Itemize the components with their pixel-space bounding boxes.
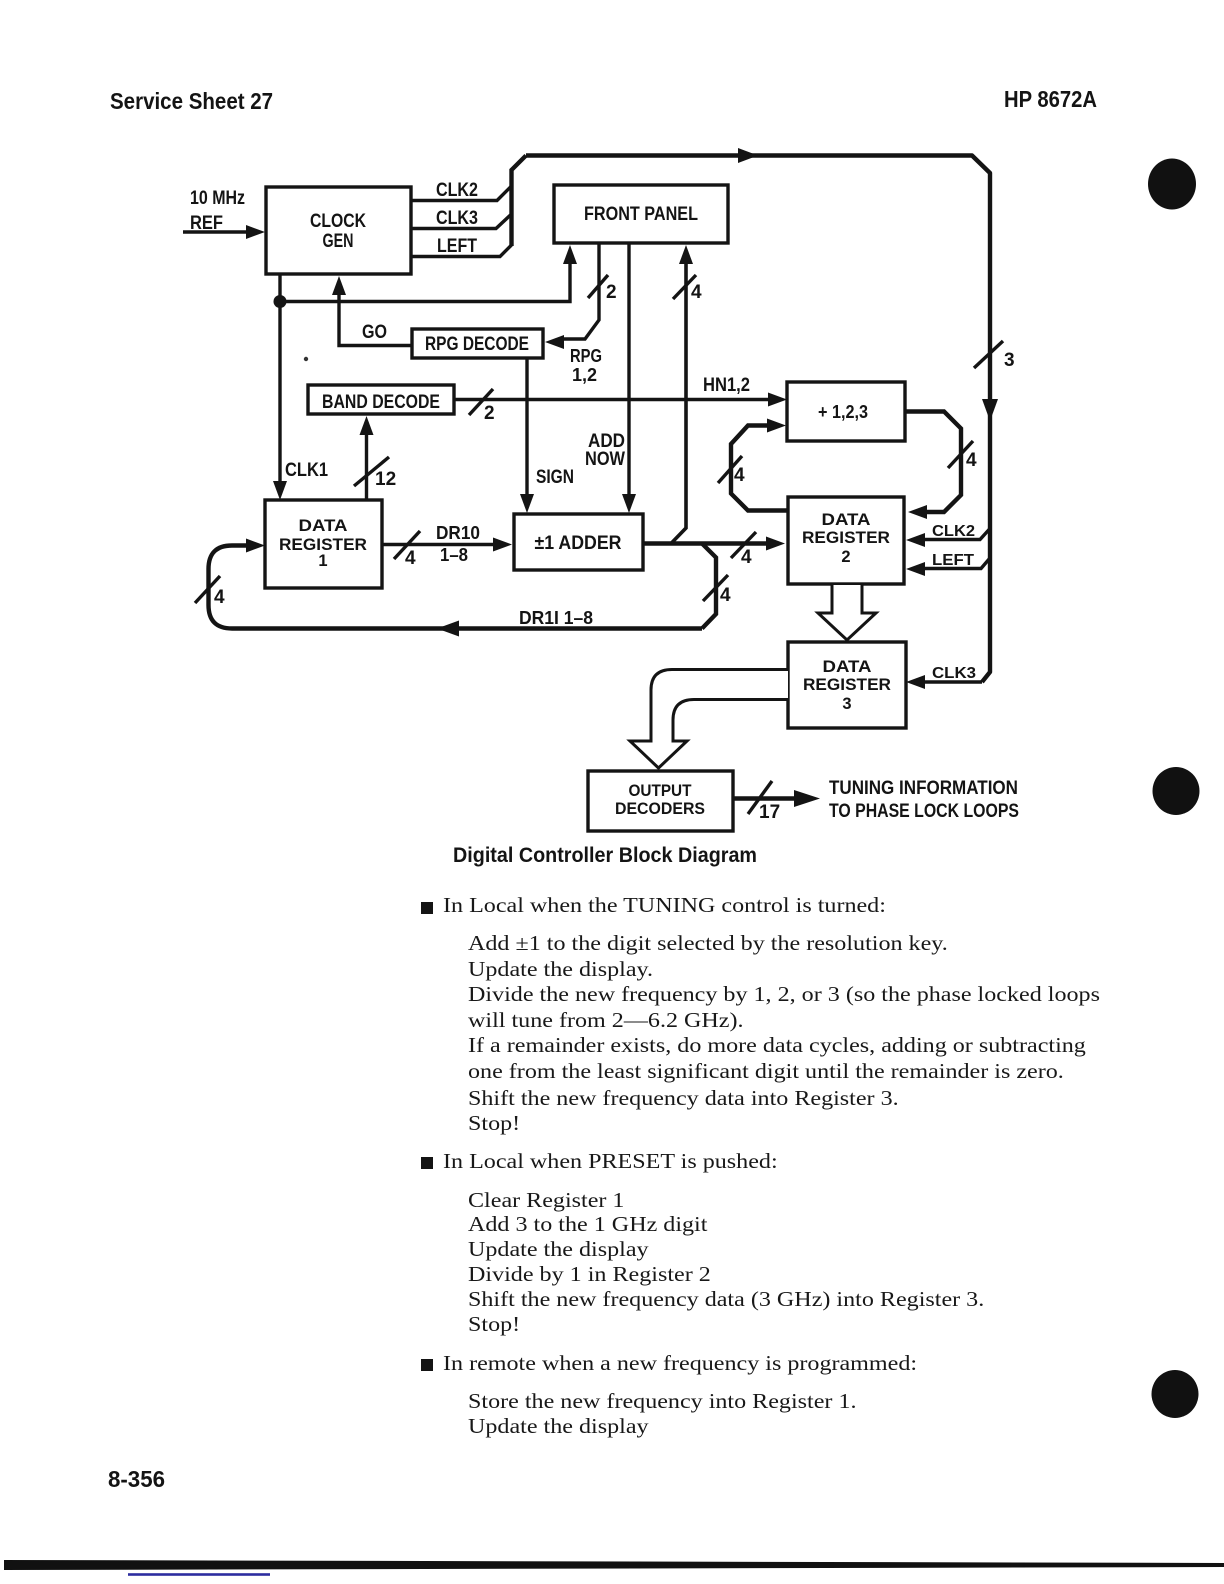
svg-text:GO: GO xyxy=(362,322,387,343)
svg-text:RPG DECODE: RPG DECODE xyxy=(425,334,529,355)
slash 12 on band decode input xyxy=(354,457,396,490)
registration dot 3 xyxy=(1152,1370,1199,1418)
bullet 2 xyxy=(421,1157,433,1169)
slash 4 on return loop xyxy=(195,576,225,608)
wire CLK1 junction down to data register 1 xyxy=(273,302,287,501)
svg-text:2: 2 xyxy=(841,548,850,566)
svg-text:DECODERS: DECODERS xyxy=(615,800,705,818)
hollow elbow arrow: data register 3 to output decoders xyxy=(630,670,788,769)
svg-text:1–8: 1–8 xyxy=(440,545,468,565)
wire: junction to front panel with up arrow xyxy=(280,245,577,302)
label ADD NOW xyxy=(585,431,625,470)
block OUTPUT DECODERS xyxy=(588,771,733,831)
bottom rule xyxy=(4,1560,1224,1570)
wire GO: rpg decode to clock gen xyxy=(332,276,412,346)
block DATA REGISTER 1 xyxy=(265,500,382,588)
header right xyxy=(1004,86,1097,113)
slash 17 on output xyxy=(748,781,780,823)
svg-text:FRONT PANEL: FRONT PANEL xyxy=(584,204,698,225)
svg-text:GEN: GEN xyxy=(323,231,354,252)
wire DR10 1-8: data register 1 to adder xyxy=(382,538,512,552)
svg-text:CLOCK: CLOCK xyxy=(310,211,366,232)
arrowhead mid DR1I line pointing left xyxy=(437,621,459,637)
block CLOCK GEN xyxy=(266,187,411,274)
wire RPG 1,2: front panel down to rpg decode xyxy=(545,243,599,349)
hollow arrow: data register 2 down to data register 3 xyxy=(818,585,876,640)
blue mark under rule xyxy=(128,1573,270,1576)
block RPG DECODE xyxy=(412,329,543,358)
wire CLK2 from clock gen xyxy=(411,187,511,201)
slash 2 on band decode output xyxy=(469,389,495,424)
registration dot 2 xyxy=(1153,767,1200,815)
svg-text:+ 1,2,3: + 1,2,3 xyxy=(818,402,868,422)
slash 4 on left loop xyxy=(718,456,745,486)
block DATA REGISTER 3 xyxy=(788,642,906,728)
svg-text:4: 4 xyxy=(405,548,416,569)
svg-text:TUNING INFORMATION: TUNING INFORMATION xyxy=(829,778,1018,799)
svg-text:2: 2 xyxy=(484,403,495,424)
svg-text:LEFT: LEFT xyxy=(437,236,477,257)
svg-text:TO PHASE LOCK LOOPS: TO PHASE LOCK LOOPS xyxy=(829,801,1019,822)
svg-text:REF: REF xyxy=(190,213,223,234)
svg-text:17: 17 xyxy=(759,802,780,823)
wire: output decoders to phase lock loops xyxy=(733,790,820,807)
svg-text:RPG: RPG xyxy=(570,346,602,366)
wire CLK3 from clock gen xyxy=(411,215,511,229)
svg-text:DATA: DATA xyxy=(299,517,348,535)
slash 4 on front panel branch xyxy=(673,275,702,303)
slash 4 on right loop xyxy=(948,441,977,471)
wire: adder output branch down to DR1I return line xyxy=(702,544,716,629)
block BAND DECODE xyxy=(308,385,454,414)
svg-text:10 MHz: 10 MHz xyxy=(190,188,245,209)
wire CLK3 branch from right rail into data register 3 xyxy=(906,675,982,689)
wire: adder output to data register 2 xyxy=(643,537,785,551)
svg-text:4: 4 xyxy=(741,547,752,568)
wire: clock gen bottom to junction xyxy=(278,274,281,301)
wire SIGN: rpg decode down to adder xyxy=(520,358,534,513)
svg-text:CLK2: CLK2 xyxy=(932,523,975,540)
footer page number xyxy=(108,1466,165,1493)
svg-text:OUTPUT: OUTPUT xyxy=(629,782,692,800)
svg-text:4: 4 xyxy=(691,282,702,303)
svg-text:1: 1 xyxy=(318,552,327,570)
slash 2 on RPG line xyxy=(588,275,617,303)
svg-text:DATA: DATA xyxy=(823,658,872,676)
svg-text:REGISTER: REGISTER xyxy=(802,529,890,547)
svg-text:3: 3 xyxy=(1004,350,1015,371)
wire loop: data register 2 left side up to +1,2,3 xyxy=(731,419,788,511)
slash 4 on DR10 xyxy=(394,531,420,569)
block DATA REGISTER 2 xyxy=(788,497,904,584)
svg-text:LEFT: LEFT xyxy=(932,552,974,569)
svg-text:CLK3: CLK3 xyxy=(932,665,976,682)
label RPG 1,2 xyxy=(570,346,602,385)
bullet 1 xyxy=(421,902,433,914)
wire: adder output branch up to front panel xyxy=(671,245,693,544)
wire CLK2 branch from right rail into data register 2 xyxy=(906,529,990,548)
svg-text:SIGN: SIGN xyxy=(536,467,574,488)
wire LEFT from clock gen xyxy=(411,245,512,257)
svg-text:4: 4 xyxy=(214,587,225,608)
svg-text:DR10: DR10 xyxy=(436,523,480,543)
wire LEFT branch from right rail into data register 2 xyxy=(906,558,990,576)
slash 4 on adder output xyxy=(731,532,756,568)
svg-text:4: 4 xyxy=(734,465,745,486)
header left xyxy=(110,88,273,115)
wire: band decode output to +1,2,3 (HN1,2) xyxy=(454,393,787,407)
svg-text:2: 2 xyxy=(606,282,617,303)
slash 3 on right rail xyxy=(974,341,1015,371)
bullet 3 xyxy=(421,1359,433,1371)
junction node xyxy=(274,295,287,308)
svg-text:4: 4 xyxy=(720,585,731,606)
wire: top rail across to right side xyxy=(526,156,990,683)
svg-text:CLK3: CLK3 xyxy=(436,208,478,229)
wire: merged bus up to top rail xyxy=(512,156,527,247)
svg-text:Digital Controller Block Diagr: Digital Controller Block Diagram xyxy=(453,844,757,867)
svg-text:DATA: DATA xyxy=(822,511,871,529)
wire loop: +1,2,3 right side down to data register 2 xyxy=(906,412,961,520)
wire DR1I 1-8 return line to data register 1 xyxy=(209,539,703,629)
label DR10 1-8 xyxy=(436,523,480,565)
svg-text:1,2: 1,2 xyxy=(572,365,597,385)
block +1,2,3 xyxy=(787,382,905,441)
speck xyxy=(304,357,308,361)
label TUNING INFORMATION TO PHASE LOCK LOOPS xyxy=(829,778,1019,822)
svg-text:±1 ADDER: ±1 ADDER xyxy=(535,533,622,554)
svg-text:BAND DECODE: BAND DECODE xyxy=(322,392,440,413)
block FRONT PANEL xyxy=(554,185,728,243)
svg-text:HN1,2: HN1,2 xyxy=(703,375,750,396)
arrowhead mid right rail pointing down xyxy=(982,399,998,421)
slash 4 on DR1I branch xyxy=(703,575,731,606)
svg-text:4: 4 xyxy=(966,450,977,471)
wire: data register 1 up to band decode xyxy=(360,416,374,500)
svg-text:12: 12 xyxy=(375,469,396,490)
block +-1 ADDER xyxy=(514,514,643,570)
wire: 10 MHz REF input into clock gen xyxy=(183,225,265,239)
svg-text:CLK2: CLK2 xyxy=(436,180,478,201)
svg-text:3: 3 xyxy=(842,695,851,713)
svg-text:CLK1: CLK1 xyxy=(285,460,328,481)
svg-text:NOW: NOW xyxy=(585,449,625,470)
svg-text:DR1I 1–8: DR1I 1–8 xyxy=(519,608,593,628)
registration dot 1 xyxy=(1148,159,1196,210)
wire ADD NOW: front panel down to adder xyxy=(622,243,636,513)
arrowhead on top rail xyxy=(738,148,758,163)
svg-text:REGISTER: REGISTER xyxy=(803,676,891,694)
